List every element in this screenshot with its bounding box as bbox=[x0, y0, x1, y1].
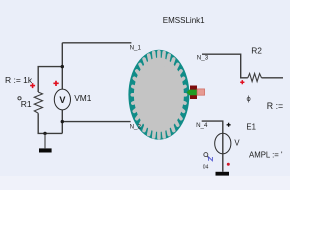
svg-text:V: V bbox=[234, 139, 240, 148]
source E1 bbox=[215, 133, 231, 154]
blue meter icon near E1 bbox=[204, 153, 213, 161]
svg-text:E1: E1 bbox=[246, 123, 256, 132]
resistor R2 bbox=[248, 74, 262, 82]
wire: net N_3 to R2 bbox=[202, 54, 248, 78]
svg-text:N_4: N_4 bbox=[196, 122, 208, 129]
polarity mark + (E1, black) bbox=[227, 123, 231, 127]
svg-text:V: V bbox=[59, 95, 66, 105]
wire: R1 bottom bbox=[38, 113, 62, 133]
polarity mark + (R1) bbox=[30, 83, 35, 88]
svg-text:N_2: N_2 bbox=[130, 123, 142, 130]
svg-text:R2: R2 bbox=[251, 45, 262, 55]
wire: VM1 bottom vertical bbox=[61, 110, 63, 133]
node junction at VM1 bottom bbox=[61, 120, 64, 123]
wire: top net N_1 bbox=[62, 43, 131, 67]
wire: VM1 vertical top segment bbox=[61, 67, 63, 90]
wire: net N_2 to gear bbox=[62, 121, 130, 123]
svg-text:04: 04 bbox=[203, 164, 209, 170]
svg-text:R1: R1 bbox=[21, 99, 32, 109]
connector green pin bbox=[187, 90, 197, 96]
node junction at ground stub bbox=[43, 132, 46, 135]
schematic sheet background bbox=[0, 0, 290, 190]
svg-text:EMSSLink1: EMSSLink1 bbox=[163, 16, 205, 25]
polarity mark + (VM1) bbox=[53, 81, 58, 86]
ground GND1 bbox=[39, 148, 52, 152]
connector flange dark red bbox=[190, 86, 197, 100]
svg-text:R :=: R := bbox=[267, 101, 283, 111]
label R1 with deg marker bbox=[18, 97, 21, 100]
red dot near E1 bbox=[227, 163, 230, 166]
svg-text:VM1: VM1 bbox=[74, 93, 92, 103]
ground GND2 bbox=[216, 172, 230, 176]
wire: net N_4 to E1 bbox=[202, 121, 223, 133]
gear fingers bbox=[132, 52, 185, 138]
node junction at VM1 top bbox=[61, 65, 64, 68]
wire through E1 bbox=[222, 133, 224, 171]
connector pink stub bbox=[197, 89, 205, 95]
wire: R1 top to VM1 junction bbox=[38, 67, 62, 92]
resistor R1 bbox=[34, 92, 42, 113]
svg-text:ϕ: ϕ bbox=[247, 94, 251, 103]
voltmeter VM1 bbox=[54, 89, 70, 110]
gear body bbox=[134, 58, 184, 132]
svg-text:N_3: N_3 bbox=[197, 55, 209, 62]
gear EMSSLink1 outer ring bbox=[128, 50, 189, 140]
svg-text:N_1: N_1 bbox=[130, 45, 142, 52]
svg-text:AMPL := ': AMPL := ' bbox=[249, 150, 283, 159]
polarity mark + (R2, red) bbox=[240, 80, 244, 84]
wire: ground stub bbox=[44, 133, 46, 148]
wire: R2 right lead bbox=[262, 77, 284, 79]
svg-text:R := 1k: R := 1k bbox=[5, 75, 33, 85]
